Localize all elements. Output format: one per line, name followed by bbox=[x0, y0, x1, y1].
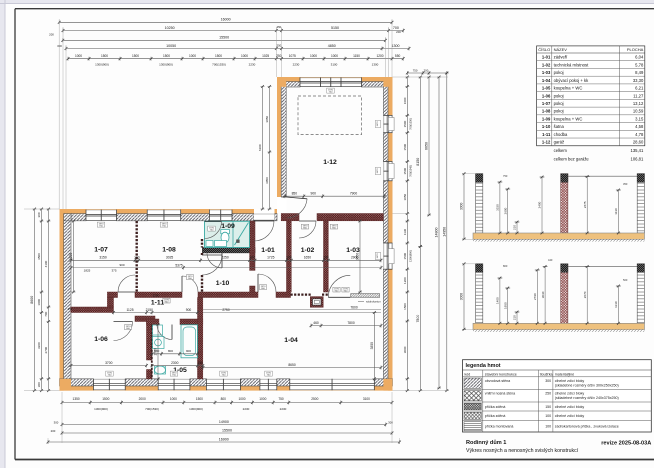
svg-text:250: 250 bbox=[277, 25, 282, 29]
svg-text:900: 900 bbox=[310, 192, 316, 196]
svg-text:příčka zděná: příčka zděná bbox=[485, 414, 506, 418]
svg-text:700: 700 bbox=[44, 311, 48, 316]
svg-text:2700: 2700 bbox=[154, 348, 158, 356]
svg-text:1000: 1000 bbox=[238, 397, 245, 401]
svg-text:6,21: 6,21 bbox=[635, 86, 644, 91]
svg-text:100: 100 bbox=[323, 256, 329, 260]
svg-text:1500: 1500 bbox=[132, 54, 139, 58]
svg-text:3850: 3850 bbox=[370, 342, 374, 350]
svg-text:210: 210 bbox=[513, 225, 517, 230]
svg-text:300: 300 bbox=[37, 382, 41, 387]
svg-text:1-04: 1-04 bbox=[284, 337, 298, 344]
svg-text:šatna: šatna bbox=[554, 124, 565, 129]
svg-text:1-12: 1-12 bbox=[542, 140, 551, 145]
svg-text:1-04: 1-04 bbox=[542, 78, 551, 83]
svg-text:PLOCHA: PLOCHA bbox=[627, 47, 644, 52]
svg-text:2700: 2700 bbox=[44, 346, 48, 353]
svg-text:3050: 3050 bbox=[265, 177, 269, 184]
svg-text:300: 300 bbox=[57, 44, 62, 48]
svg-text:2250: 2250 bbox=[221, 256, 229, 260]
svg-text:2670: 2670 bbox=[583, 291, 587, 298]
svg-text:5150: 5150 bbox=[331, 26, 339, 30]
svg-text:300: 300 bbox=[54, 420, 59, 424]
svg-text:3100: 3100 bbox=[363, 397, 370, 401]
svg-text:550: 550 bbox=[395, 54, 401, 58]
svg-text:1300: 1300 bbox=[392, 44, 400, 48]
svg-text:1725: 1725 bbox=[267, 256, 275, 260]
svg-text:460: 460 bbox=[313, 321, 319, 325]
svg-text:150: 150 bbox=[545, 405, 551, 409]
svg-text:sádrokarton: sádrokarton bbox=[366, 299, 381, 303]
svg-text:3300: 3300 bbox=[37, 342, 41, 349]
svg-text:1500: 1500 bbox=[102, 397, 109, 401]
svg-text:1-06: 1-06 bbox=[542, 93, 551, 98]
svg-text:7600: 7600 bbox=[350, 306, 358, 310]
svg-text:1-07: 1-07 bbox=[94, 247, 108, 254]
svg-text:1300(900): 1300(900) bbox=[159, 62, 173, 66]
svg-text:10050: 10050 bbox=[166, 44, 176, 48]
svg-text:1-01: 1-01 bbox=[261, 247, 275, 254]
svg-text:750: 750 bbox=[413, 68, 418, 72]
svg-text:1-09: 1-09 bbox=[542, 116, 551, 121]
svg-text:3000: 3000 bbox=[460, 203, 464, 211]
svg-text:8,49: 8,49 bbox=[635, 70, 644, 75]
svg-text:1000: 1000 bbox=[241, 54, 248, 58]
svg-text:1000: 1000 bbox=[170, 397, 177, 401]
svg-text:1130: 1130 bbox=[614, 208, 618, 215]
svg-text:1500: 1500 bbox=[403, 252, 407, 259]
svg-text:700(1530): 700(1530) bbox=[409, 118, 413, 130]
svg-text:5,78: 5,78 bbox=[635, 62, 644, 67]
svg-text:cihelné zdící bloky: cihelné zdící bloky bbox=[555, 379, 585, 383]
svg-text:1300(900): 1300(900) bbox=[409, 250, 413, 262]
svg-text:1-10: 1-10 bbox=[216, 280, 230, 287]
svg-text:100: 100 bbox=[545, 425, 551, 429]
svg-text:7800: 7800 bbox=[347, 321, 355, 325]
svg-text:Rodinný dům 1: Rodinný dům 1 bbox=[466, 439, 506, 446]
svg-text:250: 250 bbox=[545, 392, 551, 396]
svg-text:4850: 4850 bbox=[328, 44, 336, 48]
svg-text:příčka zděná: příčka zděná bbox=[485, 405, 506, 409]
svg-text:100: 100 bbox=[134, 256, 140, 260]
svg-text:1300(900): 1300(900) bbox=[189, 407, 203, 411]
svg-text:cihelné zdící bloky: cihelné zdící bloky bbox=[555, 405, 585, 409]
svg-text:800: 800 bbox=[503, 264, 508, 268]
svg-text:1-11: 1-11 bbox=[151, 300, 164, 307]
svg-text:1025: 1025 bbox=[262, 54, 269, 58]
svg-text:3150: 3150 bbox=[99, 256, 107, 260]
svg-text:4100: 4100 bbox=[69, 253, 73, 261]
svg-text:1350: 1350 bbox=[73, 397, 80, 401]
svg-text:250: 250 bbox=[276, 54, 282, 58]
svg-text:1-10: 1-10 bbox=[542, 124, 551, 129]
svg-text:7800: 7800 bbox=[416, 315, 420, 323]
svg-text:200: 200 bbox=[424, 68, 429, 72]
svg-text:250: 250 bbox=[277, 43, 282, 47]
svg-text:1-08: 1-08 bbox=[542, 109, 551, 114]
svg-text:3000: 3000 bbox=[403, 346, 407, 353]
svg-text:1500: 1500 bbox=[163, 54, 170, 58]
svg-text:15500: 15500 bbox=[222, 428, 232, 432]
svg-text:1-09: 1-09 bbox=[221, 223, 235, 230]
svg-text:16900: 16900 bbox=[219, 437, 229, 441]
svg-text:14950: 14950 bbox=[442, 227, 446, 237]
svg-text:15500: 15500 bbox=[219, 36, 229, 40]
svg-text:33,30: 33,30 bbox=[633, 78, 644, 83]
svg-text:technická místnost: technická místnost bbox=[554, 62, 590, 67]
svg-text:1-01: 1-01 bbox=[542, 55, 551, 60]
svg-text:1000: 1000 bbox=[310, 54, 317, 58]
svg-text:6650: 6650 bbox=[425, 142, 429, 150]
svg-text:3,15: 3,15 bbox=[635, 116, 644, 121]
svg-text:2675: 2675 bbox=[583, 201, 587, 208]
svg-text:11,27: 11,27 bbox=[633, 93, 644, 98]
svg-text:pokoj: pokoj bbox=[554, 109, 564, 114]
svg-text:1500: 1500 bbox=[403, 303, 407, 310]
svg-text:1200: 1200 bbox=[403, 277, 407, 284]
svg-text:stavební konstrukce: stavební konstrukce bbox=[485, 372, 517, 376]
svg-text:1825: 1825 bbox=[84, 269, 91, 273]
svg-text:1000: 1000 bbox=[331, 54, 338, 58]
svg-text:14900: 14900 bbox=[219, 420, 229, 424]
svg-text:3650: 3650 bbox=[356, 253, 360, 261]
svg-text:1-03: 1-03 bbox=[542, 70, 551, 75]
svg-text:chodba: chodba bbox=[554, 132, 568, 137]
svg-text:cihelné zdící bloky: cihelné zdící bloky bbox=[555, 414, 585, 418]
svg-text:300: 300 bbox=[545, 379, 551, 383]
svg-text:zádveří: zádveří bbox=[554, 55, 569, 60]
svg-text:1-11: 1-11 bbox=[542, 132, 551, 137]
svg-text:1300: 1300 bbox=[372, 62, 379, 66]
svg-text:300: 300 bbox=[388, 420, 393, 424]
svg-text:375: 375 bbox=[111, 269, 116, 273]
svg-text:100: 100 bbox=[545, 414, 551, 418]
svg-text:900: 900 bbox=[186, 349, 191, 353]
svg-text:900: 900 bbox=[119, 263, 124, 267]
svg-text:1300(900): 1300(900) bbox=[95, 62, 109, 66]
svg-text:garáž: garáž bbox=[554, 140, 564, 145]
svg-text:1125: 1125 bbox=[126, 308, 133, 312]
svg-text:2600: 2600 bbox=[503, 207, 507, 214]
svg-text:2000: 2000 bbox=[139, 397, 146, 401]
svg-text:700(1530): 700(1530) bbox=[212, 62, 226, 66]
svg-text:2230: 2230 bbox=[293, 62, 300, 66]
svg-text:1000: 1000 bbox=[189, 54, 196, 58]
svg-text:koupelna + WC: koupelna + WC bbox=[554, 86, 583, 91]
svg-text:pokoj: pokoj bbox=[554, 70, 564, 75]
svg-text:1400: 1400 bbox=[496, 297, 500, 304]
svg-text:750: 750 bbox=[278, 397, 284, 401]
svg-text:1-05: 1-05 bbox=[542, 86, 551, 91]
svg-text:4,58: 4,58 bbox=[635, 124, 644, 129]
svg-text:1200: 1200 bbox=[376, 54, 383, 58]
svg-text:14800: 14800 bbox=[435, 228, 439, 238]
svg-text:ČÍSLO: ČÍSLO bbox=[538, 47, 550, 52]
svg-text:1500: 1500 bbox=[403, 167, 407, 174]
svg-text:150: 150 bbox=[68, 307, 73, 311]
svg-text:2400: 2400 bbox=[538, 201, 542, 208]
svg-text:6,04: 6,04 bbox=[635, 55, 644, 60]
svg-text:1000: 1000 bbox=[75, 54, 82, 58]
svg-text:100: 100 bbox=[250, 256, 256, 260]
svg-text:pokoj: pokoj bbox=[554, 93, 564, 98]
svg-text:13,12: 13,12 bbox=[633, 101, 644, 106]
svg-text:1500: 1500 bbox=[403, 120, 407, 127]
svg-text:2790: 2790 bbox=[533, 293, 537, 300]
svg-text:7900: 7900 bbox=[350, 192, 358, 196]
svg-text:1970: 1970 bbox=[377, 168, 379, 174]
svg-text:1500: 1500 bbox=[196, 397, 203, 401]
svg-text:(skladebné rozměry d/š/v 240x: (skladebné rozměry d/š/v 240x375x250) bbox=[555, 396, 619, 400]
svg-text:4,78: 4,78 bbox=[635, 132, 644, 137]
svg-text:1-12: 1-12 bbox=[323, 159, 337, 166]
svg-text:2230: 2230 bbox=[249, 62, 256, 66]
svg-text:1000: 1000 bbox=[259, 397, 266, 401]
svg-text:kód: kód bbox=[465, 372, 471, 376]
svg-text:1950: 1950 bbox=[503, 302, 507, 309]
svg-text:1-06: 1-06 bbox=[94, 336, 108, 343]
svg-text:1200: 1200 bbox=[153, 294, 160, 298]
svg-text:700(1530): 700(1530) bbox=[145, 407, 159, 411]
svg-text:210: 210 bbox=[513, 315, 517, 320]
svg-text:Výkres nosných a nenosných svi: Výkres nosných a nenosných svislých kons… bbox=[466, 448, 579, 454]
svg-text:8600: 8600 bbox=[30, 296, 34, 304]
svg-text:1075: 1075 bbox=[289, 54, 296, 58]
svg-text:200: 200 bbox=[396, 30, 401, 34]
svg-text:1970: 1970 bbox=[377, 121, 379, 127]
svg-text:750: 750 bbox=[503, 174, 508, 178]
svg-text:NÁZEV: NÁZEV bbox=[554, 47, 568, 52]
svg-text:300: 300 bbox=[37, 212, 41, 217]
svg-text:1970: 1970 bbox=[377, 253, 379, 259]
svg-text:1650: 1650 bbox=[304, 256, 312, 260]
svg-text:8650: 8650 bbox=[288, 363, 296, 367]
svg-text:1-07: 1-07 bbox=[542, 101, 551, 106]
svg-text:5375: 5375 bbox=[175, 263, 183, 267]
svg-text:1-08: 1-08 bbox=[162, 247, 176, 254]
svg-text:2500: 2500 bbox=[311, 397, 318, 401]
svg-text:(skladebné rozměry d/š/v 300x: (skladebné rozměry d/š/v 300x250x250) bbox=[555, 383, 619, 387]
svg-text:150: 150 bbox=[197, 361, 203, 365]
svg-text:3025: 3025 bbox=[166, 256, 174, 260]
svg-text:tloušťka: tloušťka bbox=[540, 372, 553, 376]
svg-text:200: 200 bbox=[49, 32, 54, 36]
svg-text:100: 100 bbox=[286, 256, 292, 260]
svg-text:2750: 2750 bbox=[222, 308, 230, 312]
svg-text:3000: 3000 bbox=[460, 293, 464, 301]
svg-text:celkem bez garáže: celkem bez garáže bbox=[554, 156, 590, 161]
svg-text:cihelné zdící bloky: cihelné zdící bloky bbox=[555, 392, 585, 396]
svg-text:1130: 1130 bbox=[403, 228, 407, 235]
svg-text:2300: 2300 bbox=[171, 361, 179, 365]
svg-text:sádrokartonová příčka , zvukov: sádrokartonová příčka , zvuková izolace bbox=[555, 425, 619, 429]
svg-text:1300(900): 1300(900) bbox=[94, 407, 108, 411]
svg-text:1-02: 1-02 bbox=[301, 247, 315, 254]
svg-text:2150: 2150 bbox=[146, 308, 154, 312]
svg-text:1600: 1600 bbox=[403, 97, 407, 104]
svg-text:4100: 4100 bbox=[44, 260, 48, 267]
svg-text:28,60: 28,60 bbox=[633, 140, 644, 145]
svg-text:3700: 3700 bbox=[105, 361, 113, 365]
svg-text:1-02: 1-02 bbox=[542, 62, 551, 67]
svg-text:800: 800 bbox=[221, 397, 227, 401]
svg-text:850: 850 bbox=[292, 192, 298, 196]
svg-text:800: 800 bbox=[168, 349, 173, 353]
svg-text:200: 200 bbox=[51, 429, 56, 433]
svg-text:16000: 16000 bbox=[221, 18, 231, 22]
svg-text:8150: 8150 bbox=[416, 158, 420, 166]
svg-text:obvodová stěna: obvodová stěna bbox=[485, 379, 510, 383]
svg-text:106,81: 106,81 bbox=[630, 156, 643, 161]
svg-text:příčka montovaná: příčka montovaná bbox=[485, 425, 514, 429]
svg-text:koupelna + WC: koupelna + WC bbox=[554, 116, 583, 121]
svg-text:1500: 1500 bbox=[215, 54, 222, 58]
svg-text:3100: 3100 bbox=[331, 62, 338, 66]
svg-text:1500: 1500 bbox=[403, 143, 407, 150]
svg-text:obývací pokoj + kk: obývací pokoj + kk bbox=[554, 78, 589, 83]
svg-text:1050: 1050 bbox=[403, 193, 407, 200]
svg-text:1130: 1130 bbox=[614, 301, 618, 308]
svg-text:2230: 2230 bbox=[243, 407, 250, 411]
svg-text:135,41: 135,41 bbox=[630, 148, 643, 153]
svg-text:3150: 3150 bbox=[496, 204, 500, 211]
svg-text:10250: 10250 bbox=[165, 26, 175, 30]
svg-text:500: 500 bbox=[623, 278, 628, 282]
svg-text:3050: 3050 bbox=[265, 116, 269, 123]
svg-text:materiál/jiné: materiál/jiné bbox=[555, 372, 574, 376]
svg-text:vnitřní nosná stěna: vnitřní nosná stěna bbox=[485, 392, 515, 396]
svg-text:1150: 1150 bbox=[353, 54, 360, 58]
svg-text:350: 350 bbox=[623, 182, 628, 186]
svg-text:10,59: 10,59 bbox=[633, 109, 644, 114]
svg-text:900: 900 bbox=[186, 308, 192, 312]
svg-text:1000: 1000 bbox=[37, 299, 41, 306]
svg-text:1500: 1500 bbox=[101, 54, 108, 58]
svg-text:legenda hmot: legenda hmot bbox=[466, 363, 501, 369]
svg-text:3030: 3030 bbox=[541, 291, 545, 298]
svg-text:2230: 2230 bbox=[280, 407, 287, 411]
svg-text:440: 440 bbox=[548, 258, 553, 262]
svg-text:revize 2025-08-03A: revize 2025-08-03A bbox=[601, 440, 651, 446]
svg-text:6100: 6100 bbox=[258, 144, 262, 151]
svg-text:pokoj: pokoj bbox=[554, 101, 564, 106]
svg-text:700(1545): 700(1545) bbox=[409, 165, 413, 177]
svg-text:3500: 3500 bbox=[37, 253, 41, 260]
svg-text:celkem: celkem bbox=[554, 148, 568, 153]
